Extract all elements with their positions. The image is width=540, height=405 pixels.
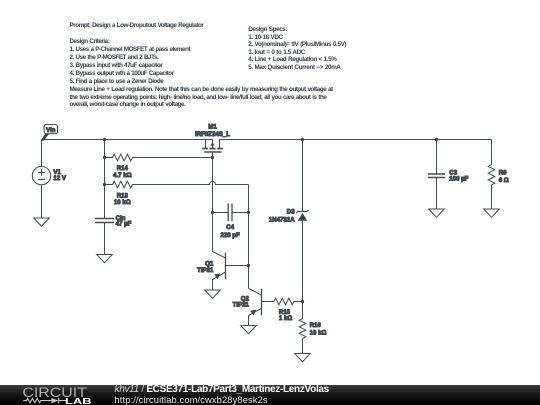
wire top rail left [42,139,213,141]
label R13 value [114,192,131,206]
wire M1 gate down [212,152,214,213]
svg-text:10 kΩ: 10 kΩ [310,330,327,337]
resistor R16 [299,302,306,354]
resistor R15 [274,298,303,305]
label Vin [46,128,56,134]
svg-text:C4: C4 [226,224,234,231]
capacitor Cin [95,219,114,255]
ground R16 [295,354,311,362]
svg-text:1 kΩ: 1 kΩ [279,315,292,322]
transistor Q2 [249,289,275,326]
ground V1 [34,218,50,226]
capacitor C4 [213,204,249,222]
label M1 value [195,124,230,138]
transistor Q1 [213,253,249,291]
node Vin flag [41,125,58,141]
svg-text:1N4732A: 1N4732A [269,217,295,224]
wire top rail right [220,139,492,141]
svg-text:D3: D3 [287,209,295,216]
wire R13 node down right of C4 to Q2 collector [249,185,262,296]
label Cin value [116,215,132,228]
label C4 value [220,224,240,239]
label C3 value [449,169,468,182]
label Q1 value [197,260,214,273]
diode D3 zener [296,140,308,302]
svg-text:47 µF: 47 µF [116,220,132,227]
label R15 value [279,309,292,322]
wire V1 top [41,140,43,167]
svg-text:12 V: 12 V [53,175,66,182]
label R14 value [113,165,132,179]
svg-text:M1: M1 [208,124,217,131]
svg-text:10 kΩ: 10 kΩ [114,199,131,206]
resistor R13 [105,181,249,188]
resistor R6 [488,140,495,210]
ground Q2 [241,326,257,334]
label V1 value [53,169,66,182]
ground Cin [97,255,113,263]
ground Q1 [205,290,221,298]
svg-text:100 µF: 100 µF [449,175,468,182]
svg-text:220 pF: 220 pF [220,232,240,239]
svg-text:6 Ω: 6 Ω [499,177,509,184]
ground R6 [484,209,500,217]
ground C3 [429,209,445,217]
svg-text:R16: R16 [310,322,322,329]
capacitor C3 [428,140,445,210]
wire V1 bottom [41,185,43,218]
wire gate node down to Q1 collector [213,213,226,259]
svg-text:IRF9Z24S_L: IRF9Z24S_L [195,131,230,138]
label R16 value [310,322,327,337]
voltage source V1 [32,166,50,184]
resistor R14 [105,154,213,161]
svg-text:TIP31: TIP31 [233,302,250,309]
svg-text:TIP31: TIP31 [197,267,214,274]
svg-text:4.7 kΩ: 4.7 kΩ [113,172,132,179]
svg-text:R14: R14 [117,165,129,172]
transistor M1 p-mosfet [202,140,223,153]
label Q2 value [233,295,250,308]
svg-text:LAB: LAB [65,396,92,405]
label R6 value [499,170,509,185]
svg-text:R6: R6 [499,170,507,177]
label D3 value [269,209,295,224]
node junction dots [103,138,438,303]
wire input bus [104,140,106,219]
svg-text:Vin: Vin [46,128,56,134]
